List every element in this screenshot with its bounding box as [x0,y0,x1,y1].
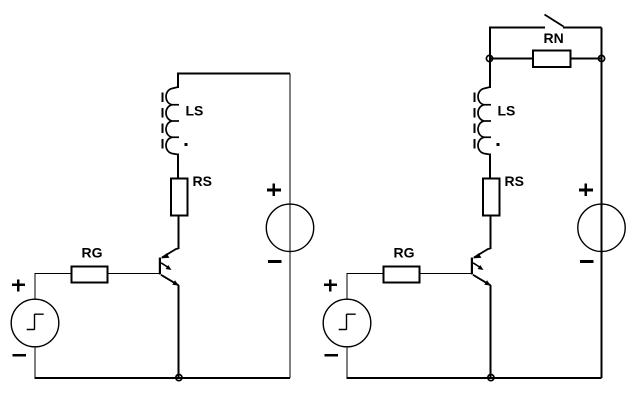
V3 minus [324,354,338,357]
V3 plus [324,279,337,291]
resistor RG [71,266,107,282]
wire: bottom rail left circuit [34,377,290,379]
inductor LS core (dashed, right) [474,93,476,151]
DC source V4 [578,204,625,251]
V1 minus [12,354,26,357]
wire: RG to gate bar [107,273,159,275]
inductor LS polarity dot (right) [497,143,500,146]
wire: base from pulse source to RG (right) [347,273,384,275]
resistor RS [171,179,188,216]
svg-text:RN: RN [544,30,564,46]
wire: RS to collector [178,216,180,250]
wire: RN branch left [490,58,533,60]
resistor RG (right) [383,266,419,282]
V2 minus [268,260,282,263]
V4 minus [580,260,594,263]
wire: LS to RS [177,154,179,180]
wire: right right rail (through DC source) [601,28,603,378]
wire: left top rail from LS top to right rail [178,74,290,89]
svg-text:RS: RS [193,173,212,189]
wire: LS to RS (right) [489,154,491,180]
svg-text:LS: LS [498,103,516,119]
resistor RN [533,51,571,68]
svg-text:RG: RG [82,244,103,260]
inductor LS core (dashed) [162,93,164,151]
inductor LS [166,87,179,155]
svg-text:LS: LS [186,103,204,119]
svg-text:RG: RG [394,244,415,260]
wire: RG to gate bar (right) [419,273,471,275]
DC source V2 [266,204,313,251]
junction node right circuit [488,375,494,381]
pulse source V3 [323,274,371,378]
svg-text:RS: RS [505,173,524,189]
resistor RS (right) [483,179,500,216]
V1 plus [12,279,25,291]
V2 plus [267,184,281,196]
inductor LS polarity dot [185,143,188,146]
wire: switch branch right segment [563,27,602,29]
wire: emitter down to bottom rail (right) [490,285,492,378]
transistor (IGBT) right [471,249,491,286]
wire: base from pulse source to RG [35,273,72,275]
junction node RN right [598,55,604,61]
switch blade (open) [545,15,564,27]
junction node left [176,375,182,381]
wire: RS to collector (right) [490,216,492,250]
junction node RN left [486,55,492,61]
wire: bottom rail right circuit [346,377,601,379]
wire: RN branch right [571,58,602,60]
inductor LS (right) [478,87,491,155]
wire: emitter down to bottom rail [178,285,180,378]
wire: left right rail (through DC source) [289,74,291,378]
V4 plus [579,184,593,196]
wire: switch branch left segment [490,28,545,89]
pulse source V1 [11,274,59,378]
transistor (IGBT) left [159,249,179,286]
